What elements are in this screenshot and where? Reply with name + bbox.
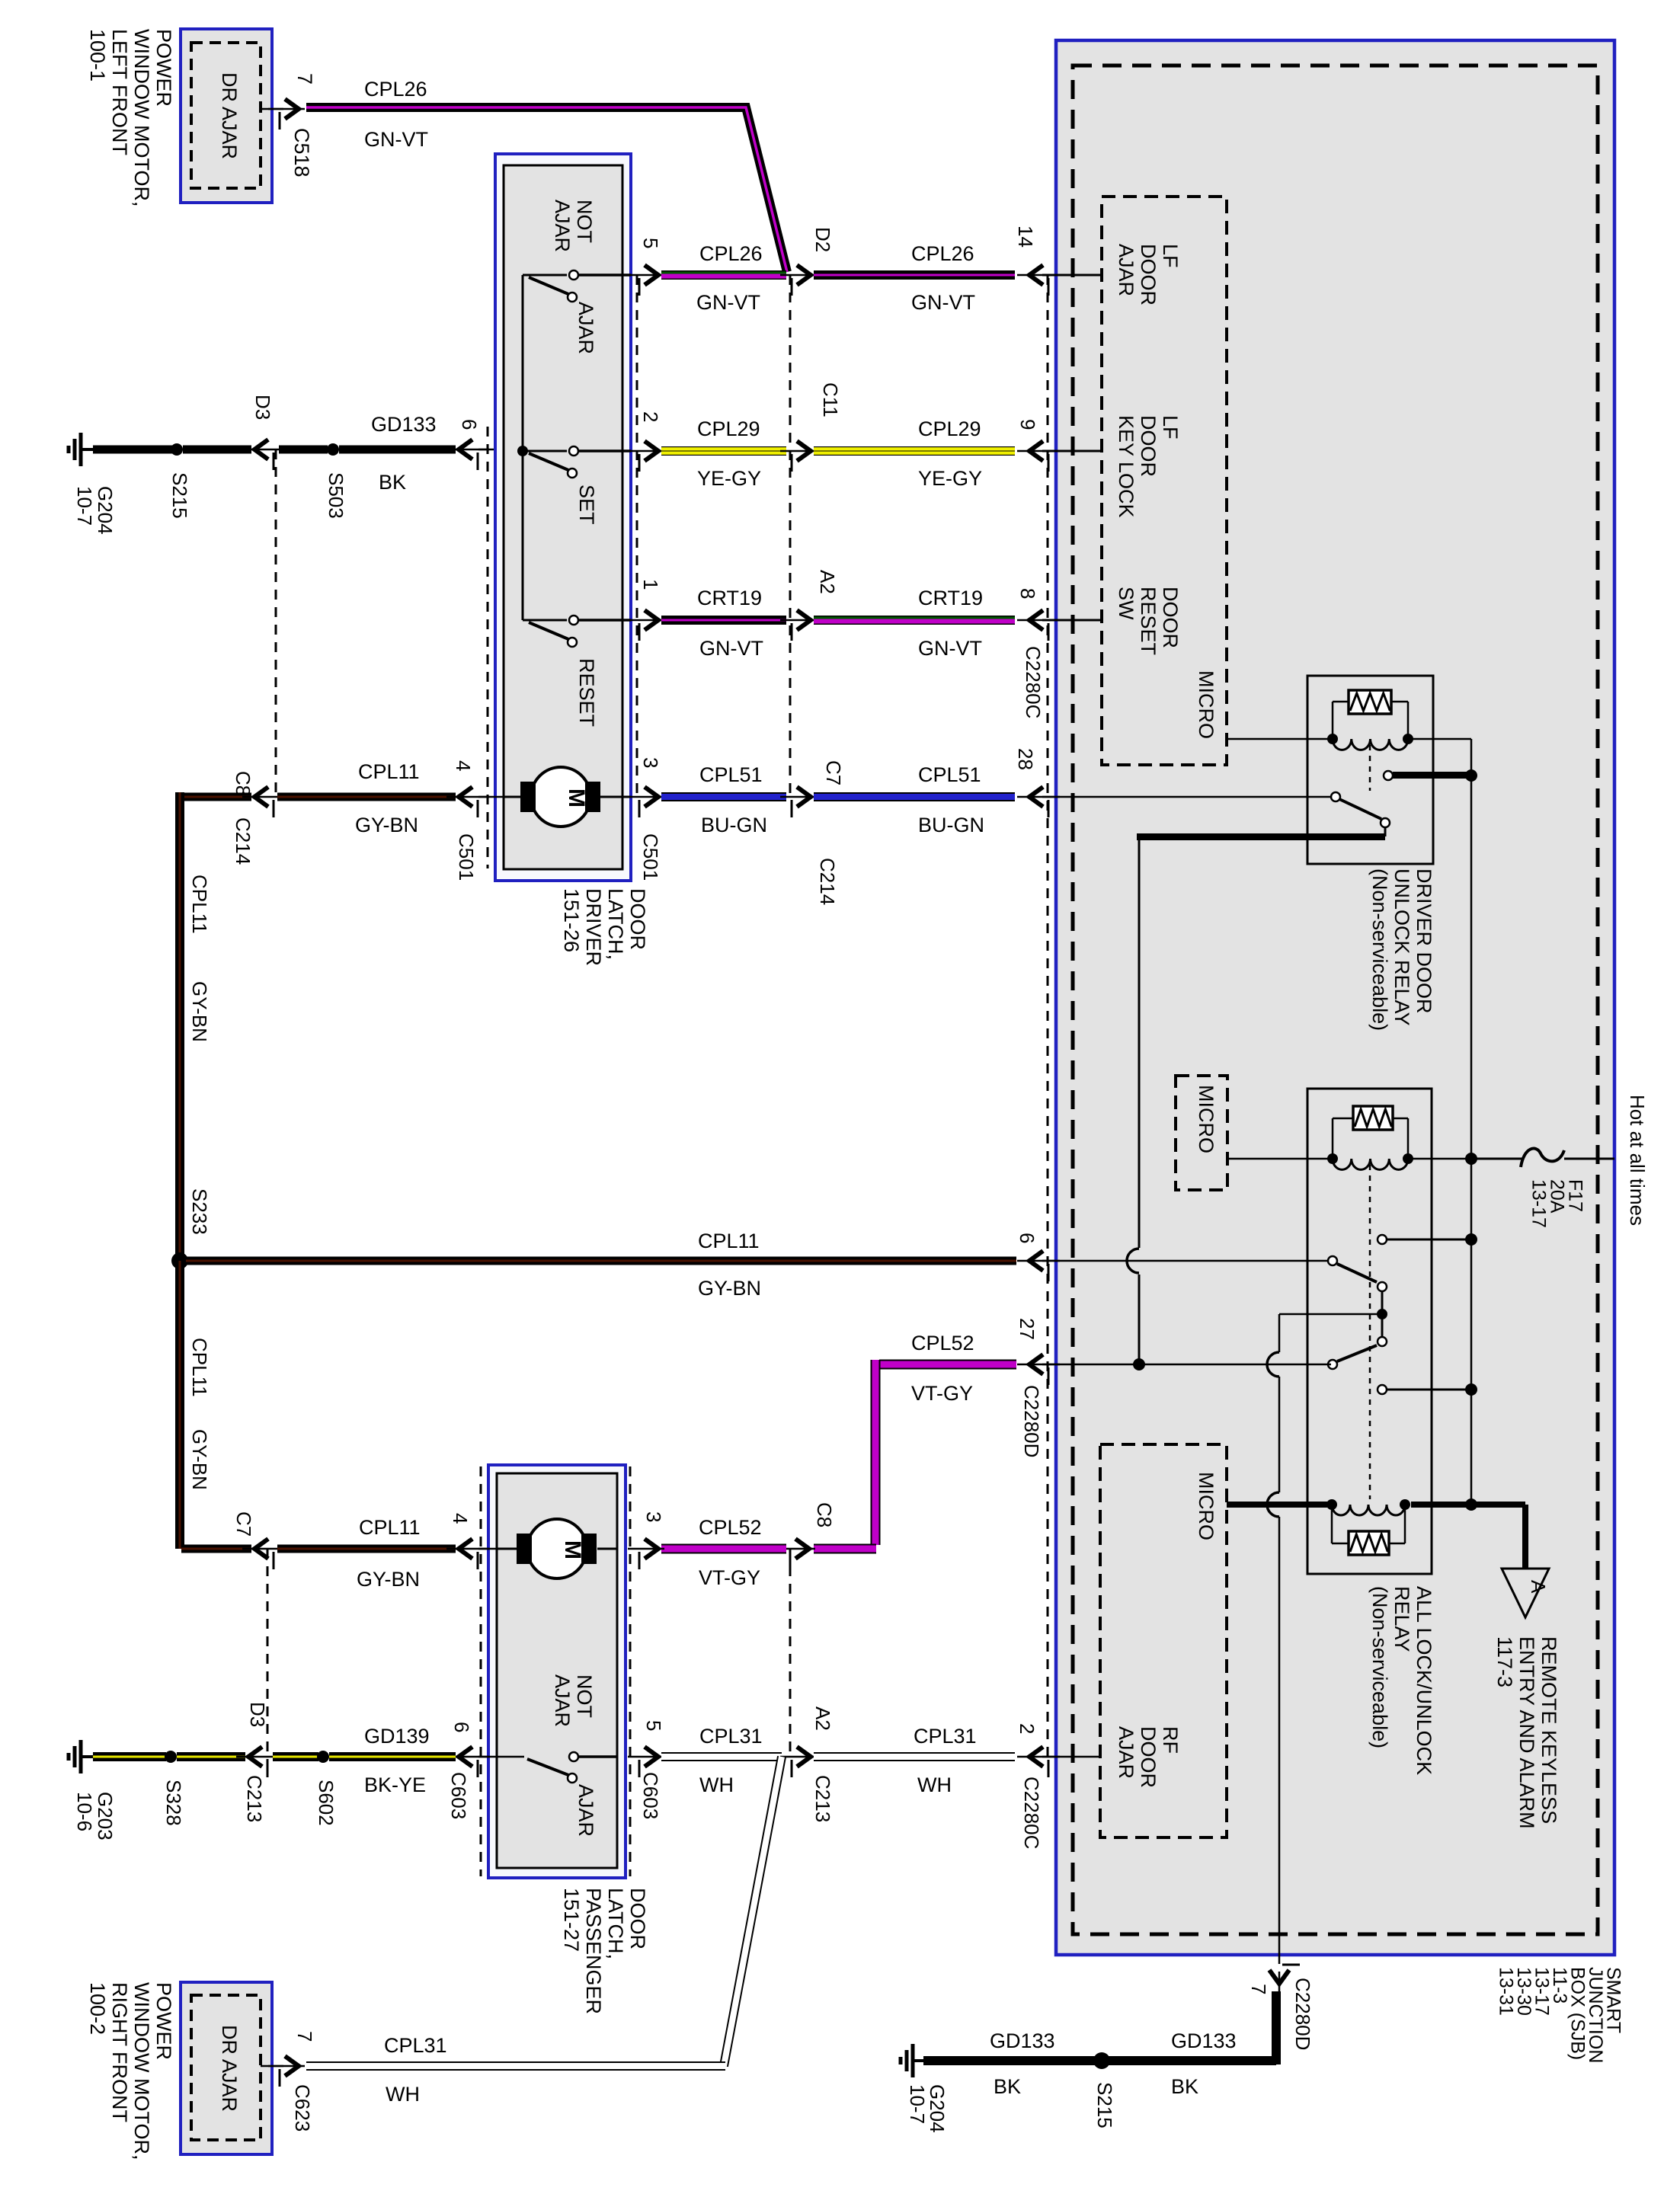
svg-text:6: 6 xyxy=(1016,1233,1038,1243)
svg-text:RF: RF xyxy=(1159,1726,1182,1754)
svg-text:CPL26: CPL26 xyxy=(911,242,974,265)
wire CPL11 GY-BN corner to C8 xyxy=(181,793,251,801)
lead pin 2 into SJB RF DOOR AJAR xyxy=(1042,1756,1100,1758)
splice S503 xyxy=(327,443,339,456)
svg-text:GN-VT: GN-VT xyxy=(364,128,428,151)
svg-text:BK: BK xyxy=(379,471,406,494)
SJB: SMART JUNCTION BOX outer box xyxy=(1056,40,1614,1955)
svg-text:RELAY: RELAY xyxy=(1390,1586,1413,1652)
wire CPL52 VT-GY corner to C8 xyxy=(814,1544,876,1554)
svg-text:CPL31: CPL31 xyxy=(384,2034,447,2057)
unlock relay suppression resistor xyxy=(1332,702,1334,736)
SJB sub-box: MICRO / RF DOOR AJAR dashed box (bottom) xyxy=(1100,1444,1227,1837)
svg-text:13-31: 13-31 xyxy=(1496,1967,1517,2016)
svg-text:CPL31: CPL31 xyxy=(699,1725,763,1748)
svg-text:GN-VT: GN-VT xyxy=(696,291,760,314)
wire MICRO (bottom) to lock relay coil 2 (thick) xyxy=(1227,1502,1327,1508)
SJB pin 14 arrow xyxy=(1017,274,1060,277)
svg-text:M: M xyxy=(564,788,589,808)
splice S233 xyxy=(171,1252,188,1269)
svg-text:7: 7 xyxy=(293,2031,316,2042)
connector dashed line C603 right xyxy=(629,1466,632,1876)
splice S602 xyxy=(317,1751,329,1763)
svg-text:SET: SET xyxy=(575,485,598,525)
svg-text:BU-GN: BU-GN xyxy=(701,814,767,836)
unlock relay contact feed wire (thick) xyxy=(1393,772,1469,779)
svg-text:GY-BN: GY-BN xyxy=(698,1277,761,1300)
svg-text:C213: C213 xyxy=(811,1775,834,1822)
door latch driver outer blue box xyxy=(495,154,631,881)
passenger latch NOT AJAR switch xyxy=(497,1756,524,1758)
svg-text:(Non-serviceable): (Non-serviceable) xyxy=(1368,868,1391,1031)
svg-text:AJAR: AJAR xyxy=(1115,244,1138,296)
wire GD139 BK-YE D3 to S602 xyxy=(273,1752,318,1761)
connector dashed line C7/C213 boundary (bottom left) xyxy=(267,1549,269,1760)
lock relay common link xyxy=(1381,1291,1384,1337)
svg-text:CRT19: CRT19 xyxy=(697,587,762,609)
wire GD133 BK D3 to S503 xyxy=(279,446,328,454)
wire CPL31 WH passenger pin5 to A2 xyxy=(661,1752,782,1761)
wire CPL52 VT-GY C8 to passenger latch pin 3 xyxy=(661,1544,786,1554)
svg-text:6: 6 xyxy=(458,419,481,430)
SJB pin 2 arrow xyxy=(1017,1756,1060,1758)
wire GD139 BK-YE S602 to passenger latch pin 6 xyxy=(329,1752,456,1761)
svg-text:DOOR: DOOR xyxy=(1137,415,1160,477)
svg-text:LF: LF xyxy=(1159,244,1182,268)
lock relay coil 2 suppression resistor xyxy=(1331,1508,1333,1543)
passenger motor lead left xyxy=(497,1548,517,1550)
lock relay coil 1 feed jog xyxy=(1413,1158,1467,1160)
svg-text:10-7: 10-7 xyxy=(73,486,96,526)
lead from MICRO to unlock relay coil xyxy=(1227,738,1330,740)
svg-text:7: 7 xyxy=(293,73,316,85)
svg-text:DRIVER DOOR: DRIVER DOOR xyxy=(1413,868,1435,1014)
connector dashed line D2/C11/A2/C7 boundary xyxy=(789,275,792,797)
svg-text:CPL11: CPL11 xyxy=(188,875,211,934)
svg-text:7: 7 xyxy=(1247,1984,1270,1994)
svg-text:LF: LF xyxy=(1159,415,1182,440)
wire GD133 BK riser to S215 xyxy=(1102,2056,1276,2065)
svg-text:27: 27 xyxy=(1016,1318,1038,1340)
svg-text:CPL51: CPL51 xyxy=(699,763,763,786)
door latch passenger inner box xyxy=(497,1473,617,1868)
svg-text:2: 2 xyxy=(1016,1723,1038,1734)
SJB sub-box: LF DOOR AJAR / LF DOOR KEY LOCK / DOOR RESET SW / MICRO dashed box xyxy=(1102,197,1227,765)
svg-text:BK: BK xyxy=(1171,2075,1198,2098)
wire CPL31 WH A2 to SJB pin 2 xyxy=(814,1752,1015,1761)
svg-text:C501: C501 xyxy=(639,833,662,881)
ground riser wire to C2280D pin 7 xyxy=(1278,1314,1281,1352)
svg-text:CPL31: CPL31 xyxy=(914,1725,977,1748)
driver latch SET switch xyxy=(523,450,567,453)
lock relay common output to C2280D xyxy=(1279,1313,1382,1316)
driver latch pin 2 arrow xyxy=(628,450,664,453)
power window motor RF box xyxy=(181,1982,272,2154)
svg-text:WH: WH xyxy=(917,1773,952,1796)
svg-text:PASSENGER: PASSENGER xyxy=(582,1888,605,2014)
door latch passenger motor M xyxy=(527,1519,587,1578)
svg-text:4: 4 xyxy=(452,760,475,771)
svg-text:CRT19: CRT19 xyxy=(918,587,983,609)
svg-text:UNLOCK RELAY: UNLOCK RELAY xyxy=(1390,868,1413,1026)
wire GD139 BK-YE S328 to D3 xyxy=(177,1752,245,1761)
svg-text:GD133: GD133 xyxy=(1171,2029,1237,2052)
driver motor lead right xyxy=(600,796,631,798)
svg-text:G203: G203 xyxy=(94,1792,117,1841)
connector C2280 dashed boundary line left of SJB xyxy=(1047,275,1049,1760)
svg-text:6: 6 xyxy=(450,1722,473,1732)
in-line connector C7 arrow (passenger) xyxy=(242,1548,285,1550)
svg-text:C603: C603 xyxy=(447,1772,470,1819)
door latch driver inner box xyxy=(504,165,622,869)
svg-text:S233: S233 xyxy=(188,1188,211,1235)
wire power bus to fuse F17 xyxy=(1471,1158,1522,1160)
svg-text:CPL11: CPL11 xyxy=(698,1230,760,1252)
lead from pin 28 to driver unlock relay xyxy=(1042,796,1331,798)
svg-text:C7: C7 xyxy=(822,760,845,785)
svg-text:WINDOW MOTOR,: WINDOW MOTOR, xyxy=(130,29,153,206)
svg-text:151-26: 151-26 xyxy=(560,888,583,952)
SJB pin 9 arrow xyxy=(1017,450,1060,453)
lead into SJB DOOR RESET SW input xyxy=(1042,619,1102,622)
unlock relay coil xyxy=(1333,739,1408,750)
svg-text:CPL11: CPL11 xyxy=(359,1516,421,1539)
wire GD139 BK-YE ground to S328 xyxy=(93,1752,166,1761)
lock relay coil 1 suppression resistor xyxy=(1332,1118,1334,1156)
svg-text:5: 5 xyxy=(642,1720,665,1731)
svg-text:GN-VT: GN-VT xyxy=(911,291,975,314)
svg-text:C518: C518 xyxy=(290,128,313,178)
svg-text:CPL29: CPL29 xyxy=(918,417,981,440)
wire CPL11 GY-BN riser upper xyxy=(175,792,184,1263)
svg-text:VT-GY: VT-GY xyxy=(911,1382,973,1405)
lead into driver latch pin 6 xyxy=(478,449,523,451)
svg-text:117-3: 117-3 xyxy=(1493,1636,1516,1687)
svg-text:DR AJAR: DR AJAR xyxy=(218,2025,241,2112)
lead pin 27 into SJB to relay xyxy=(1042,1364,1331,1366)
svg-text:BU-GN: BU-GN xyxy=(918,814,984,836)
svg-text:GD133: GD133 xyxy=(371,413,437,436)
svg-text:NOT: NOT xyxy=(573,200,596,243)
svg-text:RIGHT FRONT: RIGHT FRONT xyxy=(108,1982,131,2122)
wire CPL11 GY-BN corner to C7 (passenger) xyxy=(181,1545,251,1553)
svg-text:CPL11: CPL11 xyxy=(188,1338,211,1397)
svg-text:CPL51: CPL51 xyxy=(918,763,981,786)
wire CPL11 GY-BN C7 to passenger latch pin 4 xyxy=(277,1545,456,1553)
triangle A remote keyless entry xyxy=(1502,1569,1549,1617)
unlock relay coil feed jog xyxy=(1413,738,1471,740)
svg-text:14: 14 xyxy=(1014,225,1037,248)
in-line connector D3 arrow (passenger) xyxy=(236,1756,279,1758)
svg-text:S215: S215 xyxy=(168,472,191,519)
wire GD133 BK S215 to D3 xyxy=(183,446,251,454)
wire GD133 BK ground to S215 xyxy=(93,446,172,454)
wire fuse to SJB edge (battery feed) xyxy=(1564,1158,1614,1160)
svg-text:3: 3 xyxy=(639,757,662,768)
svg-text:WINDOW MOTOR,: WINDOW MOTOR, xyxy=(130,1982,153,2160)
door latch driver motor M xyxy=(531,767,590,827)
svg-text:M: M xyxy=(560,1540,585,1559)
SJB inner dashed outline xyxy=(1073,66,1598,1934)
lock relay upper movable contact xyxy=(1328,1256,1337,1265)
svg-text:C2280D: C2280D xyxy=(1291,1978,1314,2050)
in-line connector C11 arrow xyxy=(780,450,817,453)
svg-text:AJAR: AJAR xyxy=(1115,1726,1138,1779)
lock relay lower NO contact xyxy=(1378,1385,1387,1394)
svg-text:CPL52: CPL52 xyxy=(699,1516,762,1539)
wire CPL11 GY-BN C8 to driver latch pin 4 xyxy=(277,793,456,801)
svg-text:POWER: POWER xyxy=(152,1982,175,2060)
svg-text:WH: WH xyxy=(386,2083,420,2106)
splice S215 (bottom) xyxy=(1093,2052,1110,2069)
svg-text:LATCH,: LATCH, xyxy=(604,1888,627,1959)
svg-text:C2280C: C2280C xyxy=(1022,646,1045,718)
svg-text:SW: SW xyxy=(1115,587,1138,620)
driver latch NOT AJAR door switch xyxy=(523,274,567,277)
svg-text:KEY LOCK: KEY LOCK xyxy=(1115,415,1138,518)
SJB pin 8 arrow xyxy=(1017,619,1060,622)
in-line connector A2 arrow (top) xyxy=(780,619,817,622)
svg-text:BK: BK xyxy=(994,2075,1021,2098)
svg-text:CPL29: CPL29 xyxy=(697,417,760,440)
connector dashed line C8/A2/C213 boundary (bottom) xyxy=(789,1549,792,1757)
driver latch pin 5 arrow xyxy=(628,274,664,277)
svg-text:S503: S503 xyxy=(325,472,347,519)
SJB pin 27 arrow xyxy=(1017,1364,1060,1366)
svg-text:AJAR: AJAR xyxy=(551,200,574,252)
svg-text:S215: S215 xyxy=(1093,2082,1116,2128)
wire CRT19 GN-VT pin1 to A2 xyxy=(661,616,786,625)
svg-text:13-17: 13-17 xyxy=(1528,1179,1550,1228)
connector dashed line C501 right of driver latch xyxy=(636,275,638,797)
ground G204 (driver side) xyxy=(81,448,94,451)
wire CPL52 VT-GY riser xyxy=(871,1360,881,1545)
lock relay upper NO contact xyxy=(1378,1235,1387,1244)
svg-text:C623: C623 xyxy=(291,2084,314,2132)
svg-text:DOOR: DOOR xyxy=(1137,244,1160,305)
svg-text:5: 5 xyxy=(639,238,662,248)
passenger latch pin 5 arrow xyxy=(628,1756,664,1758)
wire CPL31 WH diagonal xyxy=(724,1757,782,2066)
svg-text:CPL26: CPL26 xyxy=(699,242,763,265)
svg-text:POWER: POWER xyxy=(152,29,175,107)
svg-text:DOOR: DOOR xyxy=(626,1888,649,1949)
door latch driver pin 6 arrow xyxy=(446,449,489,451)
door latch passenger outer blue box xyxy=(488,1465,626,1878)
svg-text:GN-VT: GN-VT xyxy=(699,637,763,660)
svg-text:AJAR: AJAR xyxy=(574,1784,597,1837)
svg-text:MICRO: MICRO xyxy=(1195,1472,1218,1540)
svg-text:D3: D3 xyxy=(246,1702,269,1727)
svg-text:ALL LOCK/UNLOCK: ALL LOCK/UNLOCK xyxy=(1413,1586,1435,1775)
connector dashed line C501 left of driver latch xyxy=(487,427,489,868)
lead into passenger latch pin 6 xyxy=(478,1756,497,1758)
svg-text:CPL11: CPL11 xyxy=(358,760,420,783)
svg-text:A: A xyxy=(1527,1580,1550,1594)
svg-text:YE-GY: YE-GY xyxy=(918,467,982,490)
in-line connector D2 arrow xyxy=(780,274,817,277)
unlock relay NO fixed contact xyxy=(1384,771,1393,780)
svg-text:YE-GY: YE-GY xyxy=(697,467,761,490)
driver latch pin 1 arrow xyxy=(628,619,664,622)
lead into driver latch pin 4 xyxy=(478,796,504,798)
svg-text:S328: S328 xyxy=(162,1780,185,1826)
svg-text:C501: C501 xyxy=(455,833,478,881)
SJB pin 28 arrow xyxy=(1017,796,1060,798)
lock relay lower movable contact xyxy=(1378,1337,1387,1346)
lock relay coil 1 xyxy=(1333,1159,1408,1169)
wire CPL52 VT-GY SJB pin 27 to corner xyxy=(879,1360,1016,1370)
svg-text:LEFT FRONT: LEFT FRONT xyxy=(108,29,131,155)
svg-text:REMOTE KEYLESS: REMOTE KEYLESS xyxy=(1538,1636,1560,1824)
svg-text:2: 2 xyxy=(639,411,662,422)
SJB sub-box: MICRO dashed box (middle) xyxy=(1176,1076,1227,1190)
driver latch pin 4 arrow xyxy=(446,796,489,798)
svg-text:AJAR: AJAR xyxy=(574,302,597,354)
svg-text:4: 4 xyxy=(449,1513,472,1524)
pin 7 lead of C623 xyxy=(261,2065,283,2068)
fuse F17 xyxy=(1521,1149,1564,1167)
svg-text:CPL52: CPL52 xyxy=(911,1332,974,1354)
svg-text:MICRO: MICRO xyxy=(1195,1085,1218,1153)
svg-text:100-1: 100-1 xyxy=(86,29,109,82)
svg-text:DOOR: DOOR xyxy=(1137,1726,1160,1788)
wire CPL26 GN-VT D2 to SJB pin 14 xyxy=(814,270,1015,280)
wire CPL51 BU-GN pin3 to C7 xyxy=(661,792,786,801)
ground G203 xyxy=(81,1755,94,1758)
driver motor lead left xyxy=(504,796,520,798)
wire CRT19 GN-VT A2 to SJB pin 8 xyxy=(814,616,1015,625)
DR AJAR dashed box (LF motor) xyxy=(191,43,261,188)
svg-text:BK-YE: BK-YE xyxy=(364,1773,426,1796)
unlock relay coil-to-contact dashed link xyxy=(1369,745,1371,791)
in-line connector C8 arrow (passenger) xyxy=(779,1548,815,1550)
svg-text:C2280D: C2280D xyxy=(1020,1385,1043,1457)
wire CPL26 GN-VT from C518 to D2 junction xyxy=(306,107,787,272)
passenger latch pin 3 arrow xyxy=(628,1548,664,1550)
svg-text:DOOR: DOOR xyxy=(1159,587,1182,648)
driver door unlock relay box xyxy=(1307,676,1433,864)
svg-text:DOOR: DOOR xyxy=(626,888,649,950)
svg-text:C8: C8 xyxy=(813,1502,836,1527)
svg-text:GY-BN: GY-BN xyxy=(188,1429,211,1490)
passenger latch pin 6 arrow xyxy=(446,1756,489,1758)
svg-text:GY-BN: GY-BN xyxy=(355,814,418,836)
svg-text:DR AJAR: DR AJAR xyxy=(218,72,241,159)
svg-text:C603: C603 xyxy=(639,1772,662,1819)
svg-text:C214: C214 xyxy=(232,817,254,865)
passenger latch pin 4 arrow xyxy=(446,1548,489,1550)
right lead NOT AJAR switch to pin 5 xyxy=(578,273,631,277)
svg-text:C8: C8 xyxy=(232,771,254,796)
unlock relay movable contact xyxy=(1331,792,1340,801)
svg-text:D3: D3 xyxy=(251,395,274,420)
svg-text:LATCH,: LATCH, xyxy=(604,888,627,960)
power window motor LF box xyxy=(181,29,272,203)
lead into passenger latch pin 4 xyxy=(478,1548,497,1550)
svg-text:8: 8 xyxy=(1016,588,1039,599)
wire CPL29 YE-GY pin2 to C11 xyxy=(661,446,786,456)
svg-text:GY-BN: GY-BN xyxy=(357,1568,420,1591)
svg-text:GD139: GD139 xyxy=(364,1725,430,1748)
in-line connector C7 arrow (mid) xyxy=(780,796,817,798)
svg-text:VT-GY: VT-GY xyxy=(699,1566,760,1589)
wire CPL51 BU-GN C7 to SJB pin 28 xyxy=(814,792,1015,801)
SJB pin 6 arrow xyxy=(1017,1260,1060,1262)
svg-text:A2: A2 xyxy=(816,570,839,594)
wire GD133 BK S503 to door latch pin 6 xyxy=(339,446,456,454)
svg-text:S602: S602 xyxy=(315,1780,338,1826)
svg-text:3: 3 xyxy=(642,1511,665,1522)
wire from pin 27 riser to unlock relay common xyxy=(1384,827,1387,836)
C2280D pin 7 arrow (down) xyxy=(1278,1972,1281,1994)
svg-text:G204: G204 xyxy=(94,486,117,535)
svg-text:CPL26: CPL26 xyxy=(364,78,427,101)
lock relay coil 2 xyxy=(1332,1505,1405,1515)
splice S215 (top) xyxy=(171,443,183,456)
in-line connector D3 arrow (driver) xyxy=(242,449,285,451)
svg-text:DRIVER: DRIVER xyxy=(582,888,605,966)
connector dashed line D3/C8 boundary xyxy=(275,449,277,797)
driver latch switch common bus xyxy=(522,275,524,620)
svg-text:10-6: 10-6 xyxy=(73,1792,96,1831)
pin 7 lead of C518 xyxy=(261,108,283,110)
svg-text:28: 28 xyxy=(1014,748,1037,770)
ground G204 (bottom) xyxy=(913,2059,926,2062)
driver latch pin 3 arrow xyxy=(628,796,664,798)
right lead SET switch to pin 2 xyxy=(578,449,631,453)
in-line connector A2 arrow (bottom) xyxy=(780,1756,817,1758)
wire CPL31 WH RF motor to diagonal xyxy=(306,2061,725,2071)
lead from MICRO (middle) to lock relay coil 1 xyxy=(1227,1158,1330,1160)
wire CPL11 GY-BN riser lower xyxy=(175,1261,184,1549)
svg-text:9: 9 xyxy=(1016,419,1039,430)
svg-text:RESET: RESET xyxy=(1137,587,1160,655)
lead into SJB LF DOOR AJAR input xyxy=(1042,274,1102,277)
lead into SJB LF DOOR KEY LOCK input xyxy=(1042,450,1102,453)
lead from pin 6 to all lock/unlock relay xyxy=(1042,1260,1331,1262)
DR AJAR dashed box (RF motor) xyxy=(191,1995,261,2140)
svg-text:GY-BN: GY-BN xyxy=(188,981,211,1042)
lock relay dashed link xyxy=(1369,1165,1371,1499)
svg-text:Hot at all times: Hot at all times xyxy=(1626,1095,1649,1226)
wire CPL11 GY-BN S233 to SJB pin 6 xyxy=(186,1257,1016,1265)
in-line connector C8 arrow (left) xyxy=(242,796,285,798)
svg-text:C2280C: C2280C xyxy=(1020,1777,1043,1849)
svg-text:1: 1 xyxy=(639,579,662,590)
right lead RESET switch to pin 1 xyxy=(578,619,631,622)
wire CPL26 GN-VT pin5 to D2 xyxy=(661,270,786,280)
svg-text:RESET: RESET xyxy=(575,658,598,727)
svg-text:NOT: NOT xyxy=(573,1674,596,1718)
wire to remote keyless triangle xyxy=(1476,1502,1525,1508)
wire GD133 BK thick riser from C2280D xyxy=(1272,1991,1281,2064)
svg-text:MICRO: MICRO xyxy=(1195,670,1218,739)
svg-text:WH: WH xyxy=(699,1773,734,1796)
svg-text:10-7: 10-7 xyxy=(906,2084,929,2124)
svg-text:100-2: 100-2 xyxy=(86,1982,109,2035)
wire GD133 BK S215 to ground G204 xyxy=(923,2056,1102,2065)
svg-text:A2: A2 xyxy=(811,1706,834,1731)
svg-text:GN-VT: GN-VT xyxy=(918,637,982,660)
connector dashed line C603 left xyxy=(480,1466,482,1876)
svg-text:151-27: 151-27 xyxy=(560,1888,583,1952)
svg-text:C214: C214 xyxy=(816,858,839,905)
svg-text:AJAR: AJAR xyxy=(551,1674,574,1727)
svg-text:D2: D2 xyxy=(811,227,834,252)
SJB internal power bus vertical xyxy=(1470,739,1473,1505)
svg-text:C213: C213 xyxy=(243,1775,266,1822)
